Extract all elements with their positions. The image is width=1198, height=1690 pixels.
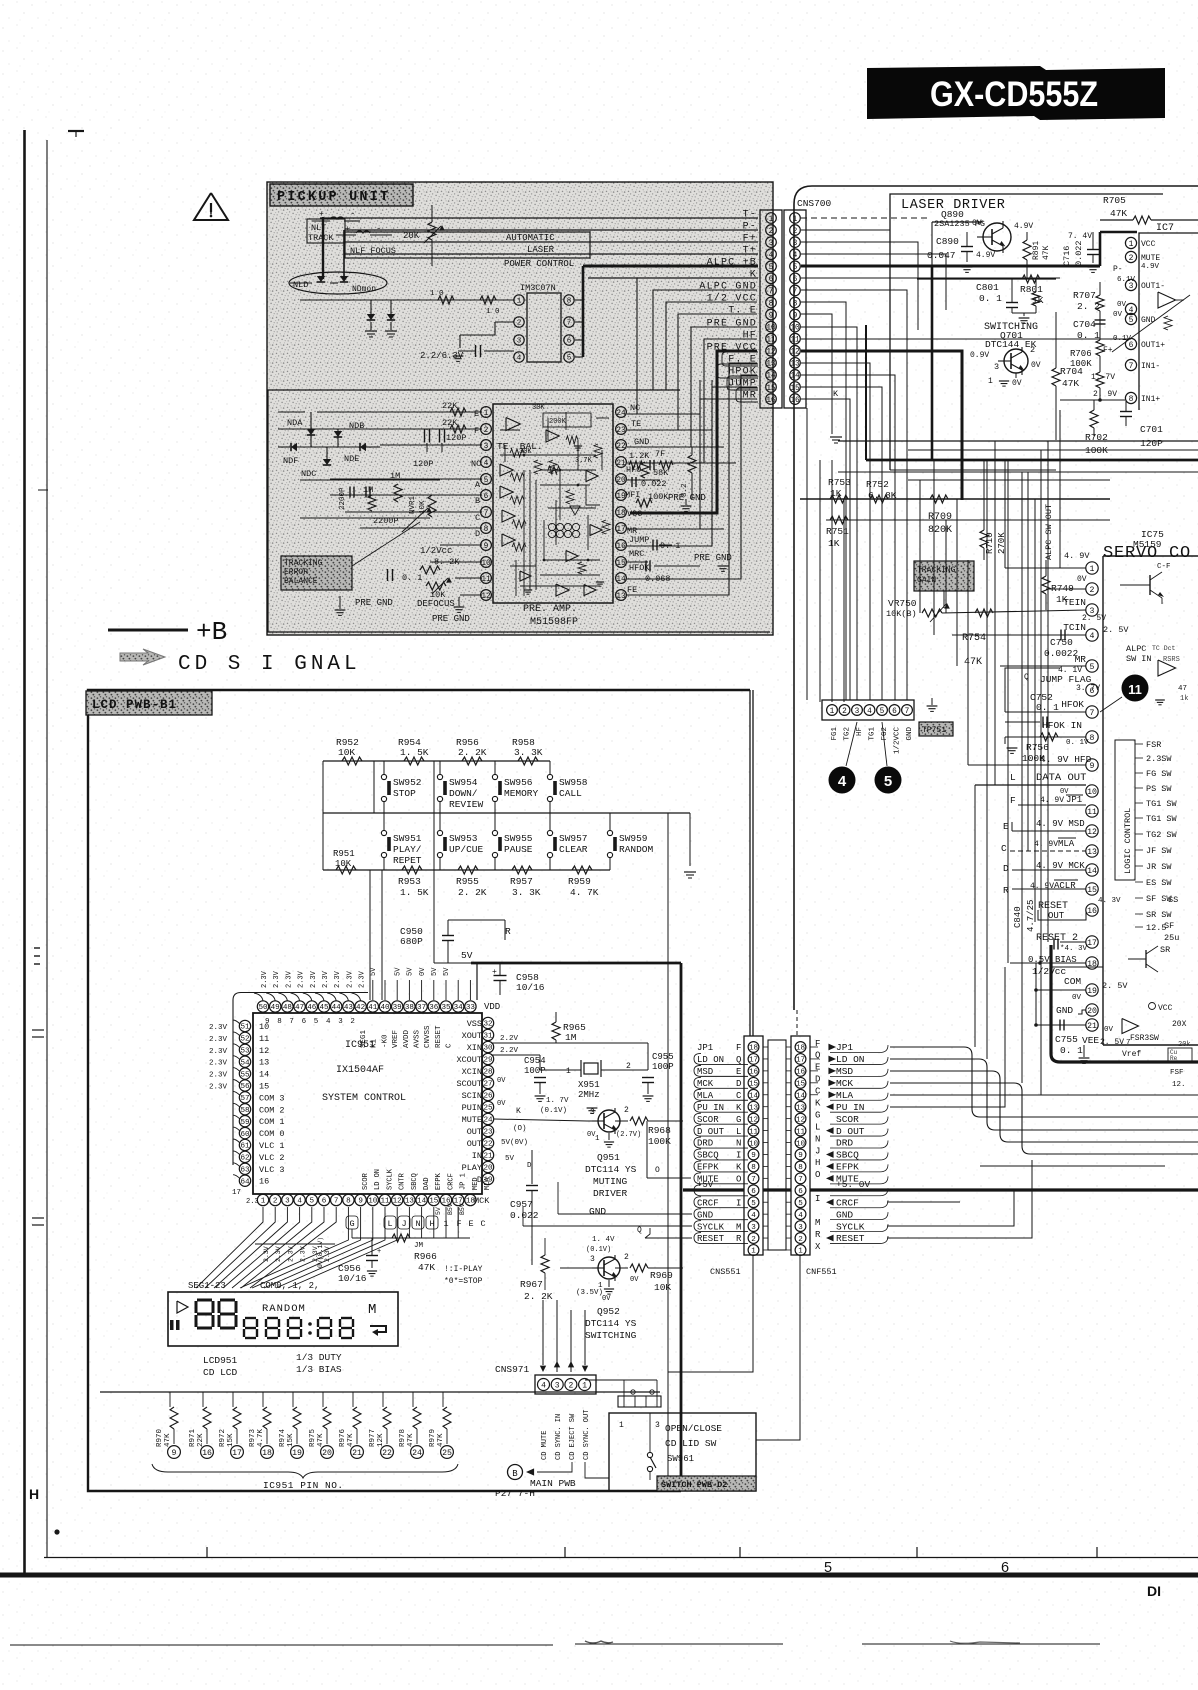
pre-amp pin 1	[481, 407, 492, 418]
IC750 pin 2	[1086, 583, 1098, 595]
svg-text:2.3V: 2.3V	[322, 970, 330, 988]
CNS551 pin 9	[748, 1149, 759, 1160]
svg-text:0V: 0V	[497, 1077, 506, 1085]
svg-text:E: E	[736, 1067, 741, 1077]
wire MUTE output	[646, 1121, 648, 1178]
svg-text:SCOR: SCOR	[836, 1114, 859, 1125]
svg-text:14: 14	[796, 1092, 806, 1100]
svg-text:D: D	[736, 1079, 741, 1089]
wire preamp to CNS700	[630, 387, 757, 546]
svg-text:VCC: VCC	[1141, 240, 1156, 249]
svg-text:Q: Q	[637, 1226, 642, 1235]
CNS551 pin 10	[748, 1137, 759, 1148]
svg-text:17: 17	[616, 526, 626, 534]
pre-amp pin 14	[616, 573, 627, 584]
pickup connector pin 3	[766, 237, 777, 248]
svg-text:1. 7V: 1. 7V	[546, 1097, 569, 1105]
resistor R751	[830, 516, 848, 524]
crystal X951	[584, 1063, 598, 1074]
IC951 top pins	[257, 1001, 268, 1012]
svg-text:TEIN: TEIN	[1063, 597, 1086, 608]
pre-amp pin 18	[616, 507, 627, 518]
IC951 bottom pin fan to LCD	[196, 1207, 263, 1288]
svg-text:RANDOM: RANDOM	[619, 844, 654, 855]
svg-text:10K: 10K	[654, 1282, 671, 1293]
CNF551 pin 2	[795, 1233, 806, 1244]
wire preamp to CNS700	[630, 363, 757, 595]
svg-text:1: 1	[769, 216, 774, 224]
svg-text:2.3V: 2.3V	[287, 1246, 294, 1262]
svg-text:1: 1	[751, 1248, 756, 1256]
IC701 pin 2	[1125, 251, 1136, 262]
svg-text:VSS: VSS	[467, 1019, 482, 1029]
capacitor 0.1 right	[652, 540, 654, 551]
svg-text:2. 5V: 2. 5V	[1102, 981, 1128, 991]
svg-text:19: 19	[1087, 987, 1097, 996]
svg-text:15K: 15K	[227, 1433, 235, 1447]
svg-text:2.3V: 2.3V	[263, 1246, 270, 1262]
svg-text:MSD: MSD	[697, 1067, 713, 1077]
wire pin16	[1038, 910, 1086, 920]
IC750 pin 21	[1086, 1019, 1098, 1031]
svg-text:10: 10	[259, 1022, 269, 1032]
svg-text:24: 24	[412, 1449, 422, 1458]
svg-text:CRCF: CRCF	[447, 1173, 455, 1190]
LCD PWB title box	[86, 691, 212, 715]
pre-amp pin 16	[616, 540, 627, 551]
svg-text:1. 4V: 1. 4V	[592, 1236, 615, 1244]
svg-text:FG2: FG2	[881, 727, 889, 741]
IC951 pin circle 9	[168, 1446, 181, 1459]
svg-text:8: 8	[1129, 395, 1134, 404]
svg-text:DRD: DRD	[697, 1139, 713, 1149]
CNS551 pin 13	[748, 1101, 759, 1112]
IC750 pin 20	[1086, 1004, 1098, 1016]
IC951 pin circle 19	[291, 1446, 304, 1459]
svg-text:2: 2	[769, 228, 774, 236]
svg-text:SW952: SW952	[393, 777, 422, 788]
svg-text:20: 20	[1087, 1007, 1097, 1016]
svg-text:C-F: C-F	[1157, 563, 1171, 571]
svg-text:I: I	[736, 1198, 741, 1208]
svg-text:8: 8	[567, 298, 572, 306]
svg-text:13: 13	[749, 1104, 759, 1112]
svg-text:0.047: 0.047	[927, 250, 956, 261]
svg-text:FG1: FG1	[831, 727, 839, 741]
svg-text:GND: GND	[697, 1210, 713, 1220]
svg-text:VDD: VDD	[484, 1002, 500, 1012]
svg-text:CLEAR: CLEAR	[559, 844, 588, 855]
svg-text:AVDD: AVDD	[403, 1029, 411, 1048]
svg-text:SR: SR	[1160, 945, 1170, 955]
svg-text:10K(B): 10K(B)	[886, 609, 917, 619]
svg-text:PRE GND: PRE GND	[694, 553, 732, 563]
svg-text:XIN: XIN	[467, 1043, 482, 1053]
svg-text:B5V: B5V	[447, 1203, 454, 1215]
svg-text:XCIN: XCIN	[462, 1067, 482, 1077]
wire to IM3C07N pin1	[300, 299, 514, 301]
switch SW955 PAUSE	[492, 830, 497, 835]
svg-text:MUTING: MUTING	[593, 1176, 628, 1187]
svg-text:R966: R966	[414, 1251, 437, 1262]
CNF551 pin 5	[795, 1197, 806, 1208]
svg-text:POWER CONTROL: POWER CONTROL	[504, 259, 574, 269]
svg-text:4.9V: 4.9V	[976, 251, 995, 260]
svg-text:47K: 47K	[347, 1433, 355, 1447]
svg-text:6: 6	[1001, 1560, 1009, 1576]
svg-text:12: 12	[481, 593, 491, 601]
svg-text:MLA: MLA	[836, 1090, 853, 1101]
svg-text:(0.1V): (0.1V)	[586, 1246, 611, 1254]
svg-text:SBCQ: SBCQ	[836, 1150, 859, 1161]
svg-text:1: 1	[1129, 240, 1134, 249]
svg-text:11: 11	[749, 1128, 759, 1136]
svg-text:R957: R957	[510, 876, 533, 887]
svg-text:PRE GND: PRE GND	[432, 614, 470, 624]
svg-text:CD LCD: CD LCD	[203, 1367, 238, 1378]
IC701 box	[1139, 233, 1198, 410]
svg-text:7: 7	[567, 320, 572, 328]
svg-text:R953: R953	[398, 876, 421, 887]
svg-text:R975: R975	[309, 1428, 317, 1447]
svg-text:0V: 0V	[1077, 575, 1087, 584]
wire R966 row	[352, 1237, 470, 1239]
svg-text:MLA: MLA	[484, 1177, 492, 1190]
wire +B to laser	[801, 265, 1100, 268]
svg-text:8: 8	[484, 526, 489, 534]
svg-text:12: 12	[259, 1046, 269, 1056]
wire +5V thick left	[683, 1188, 744, 1191]
svg-text:15: 15	[429, 1198, 439, 1206]
svg-text:0V: 0V	[1113, 311, 1123, 319]
IC701 pin 4	[1125, 303, 1136, 314]
svg-text:47K: 47K	[1110, 208, 1127, 219]
svg-text:4. 7K: 4. 7K	[570, 887, 599, 898]
svg-text:12: 12	[393, 1198, 403, 1206]
svg-text:R959: R959	[568, 876, 591, 887]
svg-text:14: 14	[259, 1070, 269, 1080]
svg-text:0V: 0V	[587, 1131, 596, 1139]
svg-text:50: 50	[258, 1004, 268, 1012]
svg-text:19: 19	[292, 1449, 302, 1458]
svg-text:1/3 BIAS: 1/3 BIAS	[296, 1364, 342, 1375]
CNF551 pin 13	[795, 1101, 806, 1112]
svg-text:UP/CUE: UP/CUE	[449, 844, 484, 855]
svg-text:JM: JM	[414, 1242, 424, 1250]
svg-text:CD S I GNAL: CD S I GNAL	[178, 653, 361, 676]
svg-text:JR SW: JR SW	[1146, 862, 1172, 872]
inter-connector gap box	[768, 1040, 786, 1250]
svg-text:FSF: FSF	[1170, 1069, 1184, 1077]
wire PRE VCC thick right	[801, 351, 962, 500]
CNS551 pin 14	[748, 1089, 759, 1100]
svg-text:45: 45	[319, 1004, 329, 1012]
IM3C07N pin 1	[514, 295, 524, 305]
svg-text:LCD951: LCD951	[203, 1355, 238, 1366]
switch matrix top resistor bus	[323, 760, 550, 762]
svg-text:FSR3SW: FSR3SW	[1130, 1034, 1159, 1043]
wire cluster bottom	[300, 479, 440, 481]
svg-text:D: D	[475, 529, 480, 539]
svg-text:SERVO CO: SERVO CO	[1103, 544, 1191, 563]
transistor Q952	[598, 1257, 620, 1279]
svg-text:43: 43	[344, 1004, 354, 1012]
IM3C07N pin 5	[564, 352, 574, 362]
svg-text:3: 3	[655, 1421, 660, 1430]
svg-text:4. 9V: 4. 9V	[1034, 840, 1058, 849]
wire laser anode	[290, 282, 312, 284]
svg-text:7: 7	[769, 288, 774, 296]
CNS551 pin 7	[748, 1173, 759, 1184]
main pwb ref circle B	[508, 1465, 523, 1480]
pre-amp pin 20	[616, 474, 627, 485]
svg-text:OUT: OUT	[467, 1127, 482, 1137]
svg-text:2.2V: 2.2V	[500, 1035, 519, 1043]
svg-text:8: 8	[751, 1164, 756, 1172]
svg-text:2: 2	[624, 1253, 629, 1262]
svg-text:2.3V: 2.3V	[273, 970, 281, 988]
CNF551 pin 3	[795, 1221, 806, 1232]
IC701 pin 8	[1125, 392, 1136, 403]
small header above SW961	[618, 1396, 661, 1407]
svg-text:SF: SF	[1164, 921, 1174, 931]
svg-text:41: 41	[368, 1004, 378, 1012]
pickup unit block background	[267, 182, 773, 635]
wire T+ row	[345, 253, 758, 255]
pickup connector pin 13	[766, 358, 777, 369]
svg-text:VCC: VCC	[627, 509, 642, 519]
IC750 pin 4	[1086, 629, 1098, 641]
svg-text:2: 2	[1129, 254, 1134, 263]
svg-text:IC7: IC7	[1156, 223, 1174, 234]
svg-text:4: 4	[541, 1381, 546, 1390]
svg-text:B5V: B5V	[459, 1203, 466, 1215]
IC951 pin brace	[152, 1464, 458, 1478]
IM3C07N pin 8	[564, 295, 574, 305]
switch SW952 STOP	[381, 774, 386, 779]
svg-text:16: 16	[796, 1069, 806, 1077]
svg-text:C801: C801	[976, 282, 999, 293]
bottom extra rule lines	[10, 1644, 553, 1646]
svg-text:H: H	[815, 1158, 820, 1168]
svg-text:E: E	[468, 1219, 473, 1229]
switch PWB-D2 label box	[657, 1476, 756, 1491]
CNF551 pin 7	[795, 1173, 806, 1184]
test point TP751	[919, 722, 953, 736]
leader to callout 4	[846, 722, 857, 766]
wire K row	[588, 277, 758, 279]
servo lower transistor	[1145, 950, 1147, 968]
svg-text:(2.7V): (2.7V)	[616, 1131, 641, 1139]
svg-text:+5. 0V: +5. 0V	[836, 1179, 871, 1190]
svg-text:R955: R955	[456, 876, 479, 887]
svg-text:HFOK: HFOK	[629, 563, 650, 573]
svg-text:2: 2	[624, 1106, 629, 1115]
capacitor C755	[1059, 1020, 1061, 1031]
svg-text:PUIN: PUIN	[462, 1103, 482, 1113]
svg-text:13: 13	[1087, 848, 1097, 857]
svg-text:120P: 120P	[413, 459, 433, 469]
svg-text:JP1: JP1	[836, 1042, 853, 1053]
svg-text:GND: GND	[1141, 316, 1156, 325]
svg-text:3: 3	[994, 362, 999, 372]
svg-text:15: 15	[766, 385, 776, 393]
vertical long feeders right	[986, 460, 988, 1059]
svg-text:0V: 0V	[1072, 994, 1082, 1002]
svg-text:M: M	[815, 1218, 820, 1228]
wire P- row	[345, 229, 758, 231]
svg-text:2: 2	[568, 1381, 573, 1390]
svg-text:FG SW: FG SW	[1146, 769, 1172, 779]
svg-text:A: A	[475, 480, 481, 490]
svg-text:SW961: SW961	[667, 1454, 694, 1464]
svg-text:10: 10	[749, 1140, 759, 1148]
CNF551 pin 8	[795, 1161, 806, 1172]
svg-text:NDC: NDC	[301, 469, 316, 479]
wire pin20	[1078, 1010, 1086, 1014]
pre-amp pin 2	[481, 424, 492, 435]
svg-text:6: 6	[798, 1188, 803, 1196]
svg-text:5V: 5V	[461, 950, 473, 961]
svg-text:SW953: SW953	[449, 833, 478, 844]
svg-text:I: I	[815, 1194, 820, 1204]
svg-text:1/3 DUTY: 1/3 DUTY	[296, 1352, 342, 1363]
svg-text:11: 11	[481, 576, 491, 584]
svg-text:2.3V: 2.3V	[285, 970, 293, 988]
svg-text:!:I-PLAY: !:I-PLAY	[444, 1265, 483, 1274]
svg-text:BALANCE: BALANCE	[284, 577, 318, 586]
IC701 pin 6	[1125, 338, 1136, 349]
pickup connector pin 1	[766, 213, 777, 224]
svg-text:21: 21	[616, 460, 626, 468]
svg-text:IN1-: IN1-	[1141, 362, 1160, 371]
CNS751 pin 3	[852, 705, 863, 716]
svg-text:PU IN: PU IN	[836, 1102, 865, 1113]
svg-text:COM 1: COM 1	[259, 1117, 285, 1127]
svg-text:0V: 0V	[497, 1100, 506, 1108]
svg-text:+5V: +5V	[697, 1180, 714, 1190]
CNS751 pin 1	[827, 705, 838, 716]
IC951 pin circle 24	[411, 1446, 424, 1459]
svg-text:R976: R976	[339, 1428, 347, 1447]
pickup connector pin 10	[766, 321, 777, 332]
capacitor C957	[531, 1150, 533, 1184]
svg-text:27: 27	[483, 1081, 492, 1089]
svg-text:R951: R951	[333, 849, 355, 859]
svg-text:CD SYNC. IN: CD SYNC. IN	[555, 1414, 563, 1460]
wire preamp to CNS700	[630, 314, 757, 430]
svg-text:GND: GND	[634, 437, 649, 447]
svg-text:0V: 0V	[419, 967, 427, 976]
svg-text:5V: 5V	[394, 967, 402, 976]
svg-text:48: 48	[283, 1004, 293, 1012]
CNS551 pin 5	[748, 1197, 759, 1208]
svg-text:X: X	[815, 1242, 821, 1252]
svg-text:G: G	[736, 1115, 741, 1125]
IM3C07N pin 3	[514, 335, 524, 345]
diode cluster wires	[278, 446, 290, 448]
wire SYCLK right	[887, 1190, 1014, 1226]
svg-text:3: 3	[484, 443, 489, 451]
pre-amp pin 8	[481, 523, 492, 534]
CNF551 pin 6	[795, 1185, 806, 1196]
svg-text:C: C	[475, 513, 480, 523]
svg-text:COM 3: COM 3	[259, 1093, 285, 1103]
svg-text:2: 2	[842, 708, 847, 716]
svg-text:TG2: TG2	[844, 727, 852, 741]
wire Q890 collector rail	[917, 278, 1056, 280]
svg-text:58K: 58K	[653, 468, 669, 478]
svg-text:4.7K: 4.7K	[257, 1428, 265, 1447]
svg-text:O: O	[655, 1166, 660, 1175]
svg-text:11: 11	[790, 337, 800, 345]
LCD PWB block outline	[88, 690, 750, 1491]
svg-text:0.9V: 0.9V	[970, 351, 989, 360]
svg-text:LCD PWB-B1: LCD PWB-B1	[92, 698, 177, 712]
resistor R957	[512, 866, 532, 874]
CNS700 pin 4	[790, 249, 801, 260]
svg-text:PAUSE: PAUSE	[504, 844, 533, 855]
svg-text:0. 1V: 0. 1V	[1066, 739, 1089, 747]
svg-text:DOWN/: DOWN/	[449, 788, 478, 799]
pre-amp pin 22	[616, 440, 627, 451]
svg-text:0. 1: 0. 1	[1060, 1045, 1083, 1056]
svg-text:2.3V: 2.3V	[209, 1084, 228, 1092]
svg-text:3: 3	[517, 338, 522, 346]
svg-text:0V: 0V	[602, 1295, 611, 1303]
pause bars	[170, 1320, 174, 1330]
svg-text:7: 7	[1090, 709, 1095, 718]
svg-text:T. E: T. E	[728, 306, 757, 317]
reference dot	[54, 1529, 59, 1534]
lid switch contacts	[647, 1452, 652, 1457]
CNS551 pin 11	[748, 1125, 759, 1136]
svg-text:47K: 47K	[1042, 245, 1051, 260]
svg-text:M: M	[368, 1302, 376, 1318]
svg-text:LOGIC CONTROL: LOGIC CONTROL	[1123, 808, 1133, 874]
ground Q952	[608, 1280, 610, 1287]
svg-text:7: 7	[289, 1018, 294, 1026]
svg-text:PLAY/: PLAY/	[393, 844, 422, 855]
resistor R966	[392, 1234, 410, 1242]
svg-text:30: 30	[483, 1045, 493, 1053]
switch SW954 DOWN/REVIEW	[437, 774, 442, 779]
wire T- row	[320, 217, 758, 219]
svg-text:R967: R967	[520, 1279, 543, 1290]
switch SW956 MEMORY	[492, 774, 497, 779]
svg-text:Q951: Q951	[597, 1152, 620, 1163]
svg-text:R969: R969	[650, 1270, 673, 1281]
svg-text:F: F	[1010, 795, 1016, 806]
IC951 left pins	[239, 1020, 250, 1031]
svg-text:NDmon: NDmon	[352, 285, 376, 294]
ground Q701	[1015, 373, 1017, 378]
svg-text:4. 9V: 4. 9V	[1040, 796, 1064, 805]
svg-text:FSR: FSR	[1146, 740, 1161, 750]
svg-text:1M: 1M	[565, 1032, 577, 1043]
pre-amp pin 23	[616, 424, 627, 435]
svg-text:SCOUT: SCOUT	[456, 1079, 482, 1089]
CNS971 pin 3	[551, 1379, 563, 1391]
svg-text:2: 2	[484, 427, 489, 435]
bottom resistor bus	[323, 869, 610, 871]
wire VDD drop	[476, 963, 478, 1000]
svg-text:7: 7	[334, 1198, 339, 1206]
svg-text:5V: 5V	[407, 967, 415, 976]
CNS551 pin 3	[748, 1221, 759, 1232]
pickup connector pin 9	[766, 309, 777, 320]
legend +B line	[108, 629, 188, 632]
